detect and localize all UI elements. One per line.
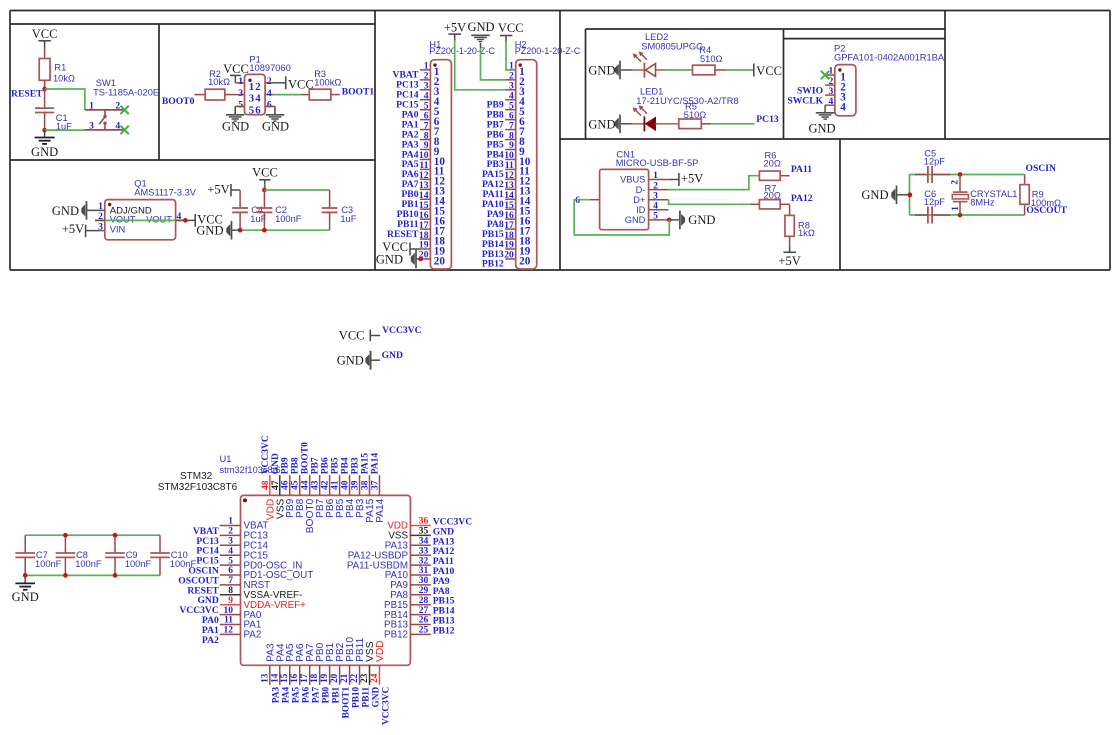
svg-text:GND: GND [371,687,381,708]
schematic sheet partition frame [10,11,1110,271]
svg-text:4: 4 [829,96,834,107]
svg-text:BOOT0: BOOT0 [301,442,311,474]
net label VCC3VC [382,325,422,336]
svg-text:2: 2 [228,527,233,537]
header H2 [505,60,537,269]
svg-text:GND: GND [625,215,646,225]
svg-text:PB11: PB11 [361,686,371,707]
svg-text:PB1: PB1 [331,686,341,703]
svg-text:U1: U1 [220,454,232,464]
svg-text:PB12: PB12 [384,630,408,641]
pin numbers SW1 [89,100,120,131]
svg-text:48: 48 [261,480,271,490]
svg-text:MICRO-USB-BF-5P: MICRO-USB-BF-5P [616,158,699,168]
node junction [63,533,68,538]
svg-text:PB4: PB4 [341,457,351,474]
svg-text:46: 46 [281,480,291,490]
svg-text:20: 20 [329,673,339,683]
LED LED2 [621,32,703,77]
svg-text:STM32F103C8T6: STM32F103C8T6 [158,482,238,493]
svg-text:1: 1 [89,100,94,111]
svg-text:100nF: 100nF [35,559,62,569]
svg-text:3: 3 [228,537,233,547]
pin names U1 right [347,521,409,641]
wire [44,41,46,49]
svg-text:PB7: PB7 [311,457,321,474]
node junction [908,192,913,197]
svg-text:PA5: PA5 [292,686,302,703]
power symbol +5V (top) [444,21,466,41]
capacitor C7 [15,535,61,575]
capacitor C5 [915,149,950,184]
pin names U1 top [265,498,386,533]
wire [455,41,506,90]
svg-text:4: 4 [840,101,846,113]
svg-text:PB5: PB5 [331,457,341,474]
svg-text:VCC: VCC [498,21,524,35]
svg-text:41: 41 [331,480,341,490]
svg-text:PB12: PB12 [482,259,504,270]
pin numbers U1 top [261,480,381,490]
pins U1 top [270,475,380,495]
resistor R1 [39,49,75,90]
power symbol VCC (top) [498,21,524,42]
svg-text:PA14: PA14 [370,453,380,475]
net label OSCIN [1026,163,1056,174]
pin names U1 bottom [265,637,386,662]
svg-text:45: 45 [291,480,301,490]
svg-text:PZ200-1-20-Z-C: PZ200-1-20-Z-C [515,46,581,56]
svg-text:VCC: VCC [32,27,58,41]
svg-text:VCC: VCC [339,328,365,342]
svg-text:PB10: PB10 [351,686,361,708]
svg-text:R1: R1 [54,63,66,73]
pin names Q1 [110,206,173,235]
svg-text:+5V: +5V [681,171,703,185]
svg-text:37: 37 [370,480,380,490]
header H2 reference [515,40,581,57]
resistor R3 [301,69,341,100]
net label PA12 [791,193,813,204]
svg-text:38: 38 [361,480,371,490]
power symbol VCC (boot header) [223,62,249,83]
svg-text:13: 13 [259,673,269,683]
pin names U1 left [244,521,314,641]
svg-text:GND: GND [382,350,403,361]
svg-text:5: 5 [653,211,658,222]
svg-text:+5V: +5V [207,183,229,197]
wire [824,105,826,112]
svg-text:10kΩ: 10kΩ [53,74,75,84]
svg-text:VCC: VCC [252,166,278,180]
svg-text:AMS1117-3.3V: AMS1117-3.3V [134,187,196,197]
svg-text:20: 20 [504,250,514,261]
svg-text:1: 1 [249,81,254,93]
node junction CN1 GND [667,218,672,223]
svg-text:GND: GND [271,453,281,474]
power symbol VCC (pin 2) [273,76,314,91]
svg-text:4: 4 [255,93,261,105]
svg-text:SM0805UPGC: SM0805UPGC [641,42,703,52]
net labels H1 [387,70,419,240]
ground GND (P1 pin 6) [262,106,289,133]
capacitor C1 [35,89,72,132]
wire [273,94,301,96]
svg-text:510Ω: 510Ω [700,54,723,64]
svg-text:VCC3VC: VCC3VC [261,435,271,474]
node junction H1 pin 20 [418,257,423,262]
svg-text:4: 4 [228,546,233,556]
svg-text:VCC: VCC [223,62,249,76]
svg-text:24: 24 [369,673,379,683]
svg-text:RESET: RESET [11,88,43,99]
net label RESET [11,88,43,99]
wire [264,189,329,191]
ground GND (H1 pin 20) [376,250,420,269]
svg-text:RESET: RESET [387,229,419,240]
svg-text:PA11: PA11 [791,164,812,175]
svg-text:20Ω: 20Ω [764,158,781,168]
svg-text:VCC: VCC [756,64,782,78]
net label GND [382,350,403,361]
node junction crystal bottom [958,213,963,218]
no-connect X on SW1 pin 4 [120,126,128,134]
svg-text:VIN: VIN [110,224,126,234]
svg-text:+5V: +5V [444,21,466,35]
svg-text:10897060: 10897060 [249,63,290,73]
net labels U1 bottom [272,686,392,725]
svg-text:100nF: 100nF [275,214,302,224]
svg-text:43: 43 [311,480,321,490]
pin names CN1 [620,175,646,225]
pins U1 left [220,526,241,635]
svg-text:LED1: LED1 [640,87,663,97]
svg-text:3: 3 [238,88,243,99]
connector CN1 [590,150,698,230]
wire oscillator bottom rail [910,214,1025,216]
svg-text:GND: GND [31,145,58,159]
svg-text:VCC3VC: VCC3VC [381,687,391,725]
wire [481,48,506,80]
svg-text:10kΩ: 10kΩ [208,77,230,87]
ground GND (Q1 ADJ) [52,201,105,220]
svg-text:PZ200-1-20-Z-C: PZ200-1-20-Z-C [429,46,495,56]
node junction [42,128,47,133]
net labels U1 top [261,435,381,474]
ground GND (cap bank) [12,575,39,604]
svg-text:STM32: STM32 [180,471,213,482]
svg-text:8MHz: 8MHz [970,198,995,208]
power symbol +5V (C4) [207,183,240,197]
power symbol +5V (VIN) [62,222,105,237]
capacitor C3 [322,190,357,230]
node junction [63,573,68,578]
wire [789,204,791,215]
svg-text:26: 26 [419,616,429,626]
svg-text:100nF: 100nF [125,559,152,569]
svg-text:TS-1185A-020E: TS-1185A-020E [93,88,159,98]
wire oscillator top rail [910,175,1025,216]
wire [726,69,754,71]
node junction [262,228,267,233]
svg-text:GND: GND [52,204,79,218]
svg-text:22: 22 [349,673,359,683]
net label SWCLK [787,95,823,106]
svg-text:SWCLK: SWCLK [787,95,823,106]
resistor R2 [194,69,236,100]
svg-text:100nF: 100nF [75,559,102,569]
pin numbers U1 bottom [259,673,379,683]
svg-text:1: 1 [228,517,233,527]
capacitor C6 [915,189,950,224]
ground GND (oscillator) [861,186,909,205]
svg-text:3: 3 [249,93,255,105]
svg-text:34: 34 [419,537,429,547]
svg-text:2: 2 [255,81,260,93]
net label PC13 [756,114,779,125]
wire cap rail top [25,534,160,536]
svg-text:12: 12 [224,626,234,636]
pin numbers H2 inside [519,66,531,267]
svg-text:GND: GND [588,64,615,78]
ground GND (P2) [808,113,835,136]
svg-text:+5V: +5V [62,222,84,236]
ground GND (top) [467,20,494,48]
svg-text:6: 6 [267,100,272,111]
wire [506,42,516,70]
svg-text:VCC3VC: VCC3VC [382,325,422,336]
resistor R4 [693,45,727,75]
net label SWIO [797,85,823,96]
svg-text:31: 31 [419,566,429,576]
pin numbers Q1 [98,201,181,232]
svg-text:GND: GND [222,120,249,134]
svg-text:D+: D+ [633,195,645,205]
pin numbers P2 inside [840,71,846,113]
svg-text:PB3: PB3 [351,457,361,474]
svg-text:PA4: PA4 [282,686,292,703]
svg-text:1: 1 [951,206,961,211]
resistor R7 [750,183,790,209]
svg-text:GND: GND [588,117,615,131]
svg-text:27: 27 [419,606,429,616]
resistor R8 [785,215,815,246]
power symbol VCC (H1 pin 19) [382,240,420,256]
power symbol +5V (R8) [778,246,800,268]
svg-text:2: 2 [951,180,961,185]
svg-text:4: 4 [115,120,120,131]
svg-text:1: 1 [238,76,243,87]
svg-text:GND: GND [196,223,223,237]
svg-text:16: 16 [289,673,299,683]
svg-text:GPFA101-0402A001R1BA: GPFA101-0402A001R1BA [834,53,945,63]
svg-text:30: 30 [419,576,429,586]
ground GND (CN1) [669,211,715,230]
pin numbers P2 outside [829,66,834,107]
pin numbers H2 outside [504,61,514,261]
svg-text:D-: D- [636,185,646,195]
net label PA11 [791,164,812,175]
no-connect X on P2 pin 1 [821,71,829,79]
ground GND net tie [337,351,380,370]
node junction [238,228,243,233]
net label OSCOUT [1026,205,1067,216]
svg-text:1uF: 1uF [340,214,356,224]
wire shield loop [574,200,669,235]
svg-text:9: 9 [228,596,233,606]
wire [240,229,330,231]
svg-text:100kΩ: 100kΩ [314,78,341,88]
svg-text:PA14: PA14 [375,498,386,522]
svg-text:19: 19 [319,673,329,683]
header H1 [420,60,452,269]
wire [669,200,750,205]
resistor R6 [759,150,789,180]
pin numbers U1 left [224,517,234,636]
crystal CRYSTAL1 [951,175,1018,216]
svg-text:VDD: VDD [375,640,386,662]
svg-text:14: 14 [269,673,279,683]
svg-text:PA15: PA15 [361,453,371,475]
svg-text:12pF: 12pF [924,197,946,207]
svg-text:PB8: PB8 [291,457,301,474]
svg-text:PB12: PB12 [433,625,455,636]
svg-text:18: 18 [309,673,319,683]
power symbol VCC net tie [339,328,380,342]
svg-text:SW1: SW1 [96,78,116,88]
svg-text:33: 33 [419,546,429,556]
svg-text:5: 5 [249,105,254,117]
svg-text:GND: GND [337,353,364,367]
capacitor C2 [257,190,302,230]
svg-text:11: 11 [224,616,233,626]
wire [666,69,692,71]
node junction [262,188,267,193]
net label BOOT1 [342,87,375,98]
power symbol VCC (Q1 out) [185,212,223,226]
svg-text:PA6: PA6 [302,686,312,703]
LED LED1 [621,87,739,132]
svg-text:GND: GND [12,590,39,604]
power symbol VCC (cap rail) [252,166,278,190]
svg-text:44: 44 [301,480,311,490]
power symbol VCC (reset circuit) [32,27,58,41]
svg-text:PA2: PA2 [244,630,262,641]
node RESET junction [42,87,47,92]
svg-text:17: 17 [299,673,309,683]
svg-text:GND: GND [262,120,289,134]
header P1 [235,54,290,114]
svg-text:4: 4 [267,88,272,99]
svg-text:12pF: 12pF [924,157,946,167]
node junction [113,533,118,538]
svg-text:36: 36 [419,517,429,527]
capacitor C9 [105,535,151,575]
pin numbers P1 inside [249,81,262,117]
svg-text:10: 10 [224,606,234,616]
wire [45,89,85,110]
capacitor C4 [232,190,266,230]
resistor R9 [1020,175,1061,216]
svg-text:15: 15 [279,673,289,683]
net labels U1 right [433,517,473,637]
svg-text:2: 2 [267,76,272,87]
capacitor C10 [150,535,196,575]
svg-text:OSCOUT: OSCOUT [1026,205,1067,216]
svg-text:BOOT0: BOOT0 [162,96,195,107]
svg-text:+5V: +5V [778,254,800,268]
wire [45,129,85,131]
svg-text:PB0: PB0 [321,686,331,703]
svg-text:ID: ID [636,205,646,215]
svg-text:39: 39 [351,480,361,490]
svg-text:25: 25 [419,626,429,636]
pin numbers CN1 [575,170,658,221]
pin numbers H1 inside [434,66,446,267]
node junction [113,573,118,578]
switch SW1 [85,78,159,130]
pins U1 right [410,526,430,635]
pin numbers H1 outside [419,61,429,261]
svg-text:GND: GND [688,213,715,227]
svg-text:OSCIN: OSCIN [1026,163,1056,174]
svg-text:GND: GND [467,20,494,34]
ground GND (LED1) [588,115,620,134]
svg-text:PB9: PB9 [281,457,291,474]
ground GND (P1 pin 5) [222,106,249,133]
svg-text:5: 5 [238,100,243,111]
svg-text:32: 32 [419,556,429,566]
microcontroller U1 body [241,495,411,665]
node junction VCC out [183,218,188,223]
svg-text:PA2: PA2 [202,635,219,646]
svg-text:35: 35 [419,527,429,537]
ground GND (cap rail) [196,221,240,240]
svg-text:2: 2 [115,100,120,111]
capacitor C8 [56,535,102,575]
svg-text:21: 21 [339,673,349,683]
svg-text:20: 20 [519,255,531,267]
svg-text:29: 29 [419,586,429,596]
net labels U1 left [178,526,219,646]
svg-text:PA12: PA12 [791,193,813,204]
wire [711,123,755,125]
svg-text:VBUS: VBUS [620,175,645,185]
wire [669,176,760,190]
svg-text:3: 3 [89,120,94,131]
ground GND (LED2) [588,61,620,80]
pin numbers P1 outside [238,76,272,111]
svg-text:PA3: PA3 [272,686,282,703]
svg-text:6: 6 [228,566,233,576]
svg-text:GND: GND [861,188,888,202]
svg-text:6: 6 [255,105,261,117]
svg-text:47: 47 [271,480,281,490]
svg-text:1kΩ: 1kΩ [798,228,815,238]
svg-text:PC13: PC13 [756,114,779,125]
svg-text:BOOT1: BOOT1 [342,87,375,98]
svg-text:23: 23 [359,673,369,683]
svg-text:28: 28 [419,596,429,606]
power symbol +5V (VBUS) [669,171,704,186]
svg-text:42: 42 [321,480,331,490]
svg-text:5: 5 [228,556,233,566]
microcontroller U1 reference [158,454,281,493]
power symbol VCC (LED2) [754,64,782,78]
regulator Q1 [105,179,197,240]
svg-text:BOOT1: BOOT1 [341,686,351,718]
svg-text:PA7: PA7 [311,686,321,703]
